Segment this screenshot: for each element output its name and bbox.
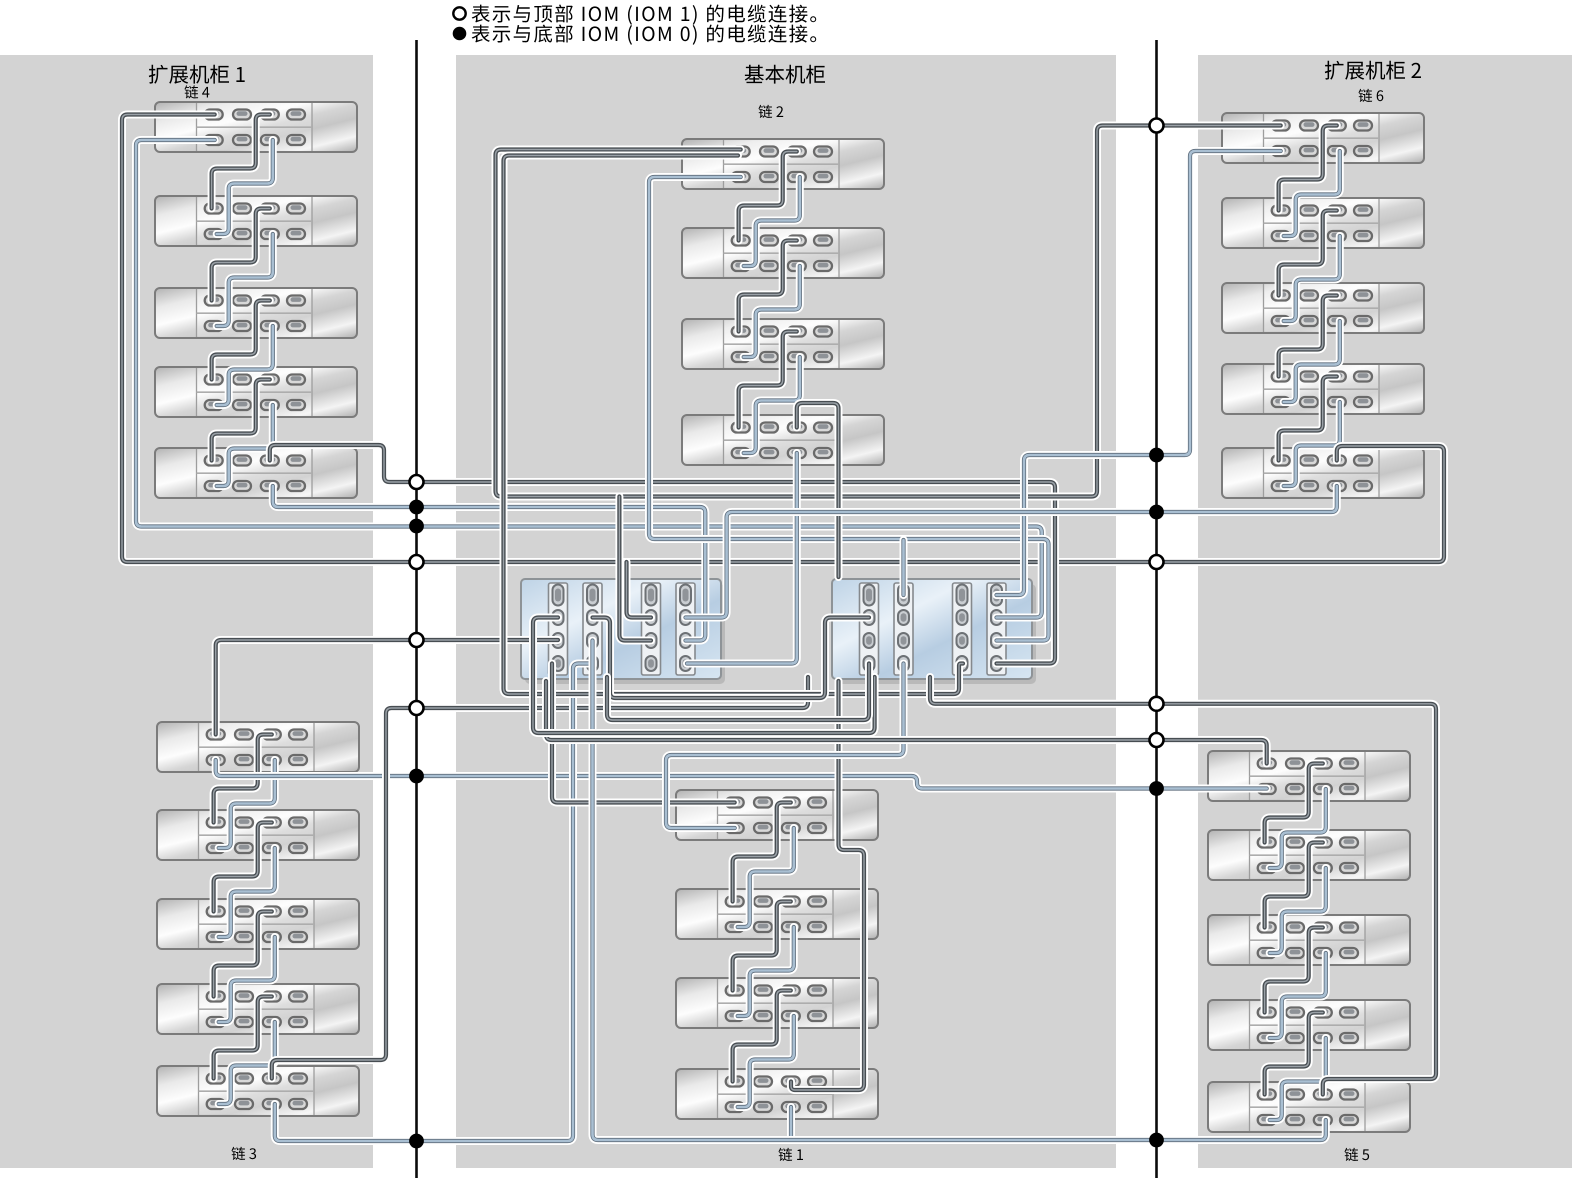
disk shelf DE chain6-2 — [1222, 198, 1424, 248]
wire chain6 shelf4 IOM0 to shelf5 — [1284, 402, 1340, 486]
rack panel: expansion cabinet 2 — [1198, 55, 1572, 1168]
label: chain 6 — [1359, 89, 1384, 102]
wire chain2 shelf1 IOM1 to shelf2 — [739, 152, 797, 241]
wire chain2 shelf1 second feed to controller2 s3p3 — [504, 156, 964, 695]
wire controller1 s2p1 to controller2 s1p1 — [593, 618, 870, 699]
wire chain4 shelf3 IOM1 to shelf4 — [212, 301, 270, 380]
disk shelf DE chain5-2 — [1208, 830, 1410, 880]
wire chain4 shelf3 IOM0 to shelf4 — [217, 326, 273, 405]
disk shelf DE chain4-2 — [155, 196, 357, 246]
wire chain5 shelf3 IOM1 to shelf4 — [1265, 928, 1323, 1013]
wire chain4 shelf1 IOM1 to chain6 shelf5 IOM1 through W562 nodes — [122, 115, 1444, 563]
rack panel: expansion cabinet 1 — [0, 55, 373, 1168]
wire chain4 shelf5 IOM0 to controller1 s4p2 — [273, 486, 706, 641]
node R-1140 (bottom IOM connection) — [1149, 1133, 1164, 1148]
label: chain 1 — [779, 1148, 804, 1161]
legend text line 2 — [472, 25, 817, 45]
wire chain6 shelf1 IOM0 to controller2 s4p0 — [997, 151, 1281, 595]
wire controller1 underside to chain5 shelf1 IOM1 — [546, 681, 1267, 764]
legend symbol: filled circle (bottom IOM) — [453, 27, 467, 41]
node L-776 (bottom IOM connection) — [409, 769, 424, 784]
node R-512 (bottom IOM connection) — [1149, 505, 1164, 520]
disk shelf DE chain1-3 — [676, 978, 878, 1028]
disk shelf DE chain2-2 — [682, 228, 884, 278]
wire chain3 shelf2 IOM0 to shelf3 — [219, 848, 275, 937]
wire controller1 underside to controller2 s1p3 — [607, 664, 869, 721]
wire chain1 shelf1 IOM1 to shelf2 — [733, 803, 791, 902]
controller U2 (right head) — [832, 579, 1036, 684]
wire chain3 shelf3 IOM1 to shelf4 — [214, 912, 272, 997]
wire controller1 s1p3 to chain1 shelf1 IOM1 — [552, 664, 735, 803]
node R-703 (top IOM connection) — [1150, 697, 1164, 711]
wire chain2 shelf3 IOM1 to shelf4 — [739, 332, 797, 428]
wire chain3 shelf1 IOM1 to controller1 s1p2 — [216, 640, 558, 735]
disk shelf DE chain5-3 — [1208, 915, 1410, 965]
wire chain3 shelf1 IOM0 to shelf2 — [219, 760, 275, 848]
wire chain2 shelf2 IOM0 to shelf3 — [744, 266, 800, 357]
wire chain2 shelf4 to chain1 link (hidden behind controller 2) — [835, 575, 843, 683]
disk shelf DE chain5-4 — [1208, 1000, 1410, 1050]
wire chain4 shelf5 IOM1 to controller2 s4p3 — [270, 445, 1055, 664]
wire chain5 shelf5 IOM0 to controller1 s2p2 — [593, 641, 1326, 1141]
disk shelf DE chain3-1 — [157, 722, 359, 772]
wire chain6 shelf1 IOM0 to shelf2 — [1284, 151, 1340, 236]
wire chain4 shelf1 IOM0 to shelf2 — [217, 140, 273, 234]
node R-125 (top IOM connection) — [1150, 119, 1164, 133]
disk shelf DE chain3-3 — [157, 899, 359, 949]
disk shelf DE chain6-1 — [1222, 113, 1424, 163]
wire chain3 shelf1 IOM1 to shelf2 — [214, 735, 272, 823]
node L-526 (bottom IOM connection) — [409, 519, 424, 534]
wire chain5 shelf2 IOM1 to shelf3 — [1265, 843, 1323, 928]
wire controller2 s2p3 to chain1 shelf1 IOM0 — [666, 664, 904, 829]
wire chain4 shelf1 IOM1 to shelf2 — [212, 115, 270, 209]
wire chain4 shelf1 IOM0 to controller2 s4p1 — [136, 140, 1042, 618]
wire chain6 shelf3 IOM1 to shelf4 — [1279, 296, 1337, 377]
legend symbol: open circle (top IOM) — [453, 7, 465, 19]
wire chain3 shelf4 IOM1 to shelf5 — [214, 997, 272, 1079]
wire chain4 shelf4 IOM0 to shelf5 — [217, 405, 273, 486]
wire chain2 shelf2 IOM1 to shelf3 — [739, 241, 797, 332]
node R-740 (top IOM connection) — [1150, 733, 1164, 747]
wire chain3 shelf1 IOM0 to chain5 shelf1 IOM0 through dots — [216, 760, 1267, 789]
label: chain 3 — [232, 1147, 257, 1160]
wire chain3 shelf5 IOM0 to controller1 s2p3 — [275, 664, 593, 1142]
wire controller2 to chain5 shelf5 IOM1 — [930, 677, 1436, 1095]
node R-455 (bottom IOM connection) — [1149, 448, 1164, 463]
wire chain6 shelf4 IOM1 to shelf5 — [1279, 377, 1337, 461]
disk shelf DE chain4-5 — [155, 448, 357, 498]
controller U1 (left head) — [521, 579, 725, 684]
node R-788 (bottom IOM connection) — [1149, 781, 1164, 796]
wire chain5 shelf1 IOM0 to shelf2 — [1270, 789, 1326, 868]
wire chain1 shelf3 IOM1 to shelf4 — [733, 991, 791, 1082]
title: base cabinet — [745, 65, 825, 84]
disk shelf DE chain6-4 — [1222, 364, 1424, 414]
node L-507 (bottom IOM connection) — [409, 500, 424, 515]
disk shelf DE chain2-3 — [682, 319, 884, 369]
disk shelf DE chain6-5 — [1222, 448, 1424, 498]
wire chain6 shelf1 IOM1 to shelf2 — [1279, 126, 1337, 211]
wire chain4 shelf4 IOM1 to shelf5 — [212, 380, 270, 461]
rack panel: base cabinet — [456, 55, 1116, 1168]
node L-708 (top IOM connection) — [410, 701, 424, 715]
wire chain5 shelf4 IOM0 to shelf5 — [1270, 1038, 1326, 1120]
node L-1141 (bottom IOM connection) — [409, 1134, 424, 1149]
wire chain3 shelf3 IOM0 to shelf4 — [219, 937, 275, 1022]
disk shelf DE chain4-1 — [155, 102, 357, 152]
disk shelf DE chain6-3 — [1222, 283, 1424, 333]
label: chain 2 — [759, 105, 784, 118]
rack boundary line (left) — [415, 40, 418, 1178]
disk shelf DE chain1-2 — [676, 889, 878, 939]
disk shelf DE chain4-4 — [155, 367, 357, 417]
disk shelf DE chain3-2 — [157, 810, 359, 860]
wire chain4 shelf2 IOM0 to shelf3 — [217, 234, 273, 326]
wire bus drop to controller1 s3p1 — [627, 562, 652, 618]
wire chain6 shelf1 IOM1 to chain2 shelf1 IOM1 — [496, 126, 1281, 497]
title: expansion cabinet 1 — [149, 65, 245, 84]
node L-562 (top IOM connection) — [410, 555, 424, 569]
wire chain5 shelf1 IOM1 to shelf2 — [1265, 764, 1323, 843]
wire chain2 shelf3 IOM0 to shelf4 — [744, 357, 800, 453]
label: chain 4 — [185, 85, 210, 98]
wire chain5 shelf4 IOM1 to shelf5 — [1265, 1013, 1323, 1095]
wire chain3 shelf5 IOM1 to controller2 underside — [272, 677, 808, 1079]
wire controller1 s1p1 to controller2 underside — [533, 618, 875, 734]
disk shelf DE chain1-1 — [676, 790, 878, 840]
wire chain1 shelf2 IOM0 to shelf3 — [738, 927, 794, 1016]
wire chain3 shelf4 IOM0 to shelf5 — [219, 1022, 275, 1104]
disk shelf DE chain5-1 — [1208, 751, 1410, 801]
title: expansion cabinet 2 — [1325, 61, 1421, 80]
wire chain2 shelf4 IOM1 upper segment — [797, 403, 839, 577]
wire bus drop to controller1 s3p2 — [619, 497, 651, 641]
disk shelf DE chain5-5 — [1208, 1082, 1410, 1132]
disk shelf DE chain2-4 — [682, 415, 884, 465]
wire chain2 shelf4 IOM0 to controller1 s4p3 — [687, 453, 797, 664]
wire controller2 s2p0 feed from bus — [900, 540, 908, 595]
rack boundary line (right) — [1155, 40, 1158, 1178]
wire chain2 shelf1 IOM0 to shelf2 — [744, 177, 800, 266]
disk shelf DE chain4-3 — [155, 288, 357, 338]
wire chain6 shelf2 IOM1 to shelf3 — [1279, 211, 1337, 296]
wire chain1 shelf4 IOM0 drop to bus — [787, 1107, 795, 1140]
wire chain5 shelf3 IOM0 to shelf4 — [1270, 953, 1326, 1038]
disk shelf DE chain1-4 — [676, 1069, 878, 1119]
wire chain6 shelf2 IOM0 to shelf3 — [1284, 236, 1340, 321]
legend text line 1 — [472, 5, 817, 25]
wire chain1 shelf1 IOM0 to shelf2 — [738, 828, 794, 927]
disk shelf DE chain3-4 — [157, 984, 359, 1034]
wire chain4 shelf2 IOM1 to shelf3 — [212, 209, 270, 301]
wire chain1 shelf2 IOM1 to shelf3 — [733, 902, 791, 991]
node L-482 (top IOM connection) — [410, 475, 424, 489]
node L-640 (top IOM connection) — [410, 633, 424, 647]
label: chain 5 — [1345, 1148, 1370, 1161]
wire chain6 shelf3 IOM0 to shelf4 — [1284, 321, 1340, 402]
wire chain6 shelf5 IOM0 to controller1 s4p1 — [686, 486, 1337, 618]
wire chain2 shelf4 IOM1 to chain1 shelf4 IOM1 — [791, 681, 864, 1090]
wire chain5 shelf2 IOM0 to shelf3 — [1270, 868, 1326, 953]
wire chain1 shelf3 IOM0 to shelf4 — [738, 1016, 794, 1107]
disk shelf DE chain2-1 — [682, 139, 884, 189]
disk shelf DE chain3-5 — [157, 1066, 359, 1116]
wire chain3 shelf2 IOM1 to shelf3 — [214, 823, 272, 912]
wire chain2 shelf1 IOM0 to controller2 s4p2 — [649, 177, 1049, 641]
node R-562 (top IOM connection) — [1150, 555, 1164, 569]
